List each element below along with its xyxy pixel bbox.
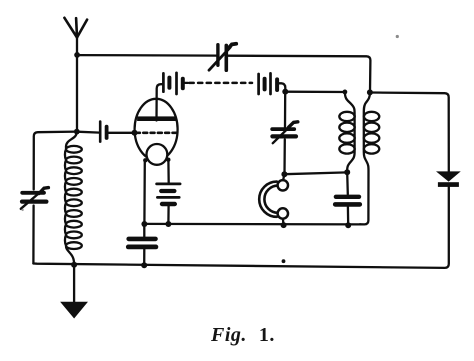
tube V1 (triode) [135, 84, 178, 165]
wire C1 bottom to bottom-left corner [32, 206, 34, 264]
node secondary-top junction [367, 89, 373, 95]
capacitor C2 (series variable antenna capacitor) [209, 44, 236, 70]
node coil top junction [74, 129, 80, 135]
envelope [135, 99, 178, 160]
wire phones-top junction to primary bottom junction [285, 172, 348, 174]
node C6 bottom junction [141, 262, 147, 268]
node antenna/top-wire junction [74, 52, 80, 58]
node phones bottom junction [281, 222, 287, 228]
battery B2 (filament battery) [157, 184, 181, 224]
inductor L1 (aerial tuning coil) [65, 132, 82, 264]
wire antenna down-lead [76, 55, 78, 132]
node phones top junction [281, 171, 287, 177]
wire filament rail (A-battery row) [144, 223, 360, 226]
headphones P [259, 174, 288, 225]
wire top rail left of C2 [77, 54, 218, 57]
node left filament junction [141, 221, 147, 227]
wire left filament lead [143, 161, 146, 224]
grid (dashed) [136, 132, 177, 135]
capacitor C4 (variable, secondary tuning) [272, 122, 298, 143]
node coil bottom junction [71, 262, 77, 268]
node B+ junction [282, 89, 288, 95]
scan speck (above bottom rail) [282, 259, 286, 263]
wire right filament lead to battery [167, 160, 170, 183]
transformer T1 secondary [360, 92, 379, 224]
ground (earth arrow) [61, 265, 86, 318]
scan speck (top right) [396, 35, 399, 38]
caption Fig. 1. [211, 324, 275, 347]
wire from secondary-top junction to right edge, down right side [370, 93, 449, 172]
wire C4 bottom to phones-top junction [283, 140, 286, 175]
node battery bottom junction [165, 221, 171, 227]
plate lead [157, 84, 163, 120]
capacitor C3 (grid condenser) [100, 122, 106, 142]
battery B1 right section [259, 73, 286, 94]
wire dashed link between battery sections [190, 82, 253, 85]
diode D1 (crystal detector) [438, 172, 459, 187]
node C5 bottom junction [345, 222, 351, 228]
wire grid lead from coil junction to grid capacitor [77, 131, 100, 134]
plate (anode) bar [137, 116, 176, 121]
transformer T1 primary [339, 92, 354, 172]
node primary top terminal [343, 90, 348, 95]
wire grid capacitor to tube grid [108, 132, 134, 134]
wire left branch: top corner and vertical to C1 [34, 132, 77, 190]
antenna [64, 18, 87, 55]
wire top rail right of C2, corner down to transformer top [227, 56, 371, 93]
filament lead blobs [143, 158, 147, 162]
capacitor C6 (filament bypass) [128, 224, 156, 265]
node primary bottom junction [344, 169, 350, 175]
scan speck (near C1) [21, 209, 23, 211]
node grid junction at tube [132, 130, 138, 136]
capacitor C5 (fixed, across phones) [335, 172, 360, 225]
wire diode cathode down, bottom rail to far left [33, 187, 448, 268]
wire B+ junction to primary top [285, 91, 345, 94]
capacitor C1 (variable, left tuning) [21, 188, 49, 209]
filament loop [147, 144, 168, 165]
battery B1 left section (plate battery) [163, 73, 188, 94]
wire B+ junction down to C4 [284, 92, 287, 128]
